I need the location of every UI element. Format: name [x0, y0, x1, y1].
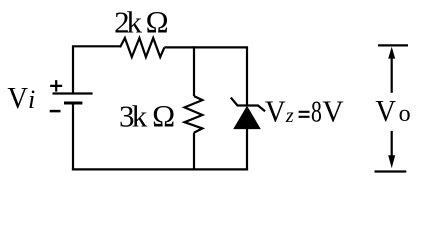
svg-text:k: k: [132, 99, 148, 134]
svg-text:i: i: [28, 85, 35, 114]
svg-text:z: z: [285, 105, 294, 127]
svg-text:V: V: [322, 94, 343, 129]
svg-text:k: k: [127, 5, 143, 40]
svg-text:8: 8: [311, 94, 322, 129]
svg-text:o: o: [399, 101, 411, 127]
svg-text:V: V: [7, 81, 28, 115]
svg-text:Ω: Ω: [145, 5, 169, 40]
svg-text:V: V: [375, 94, 396, 128]
svg-text:V: V: [265, 95, 286, 129]
svg-text:Ω: Ω: [152, 99, 176, 134]
